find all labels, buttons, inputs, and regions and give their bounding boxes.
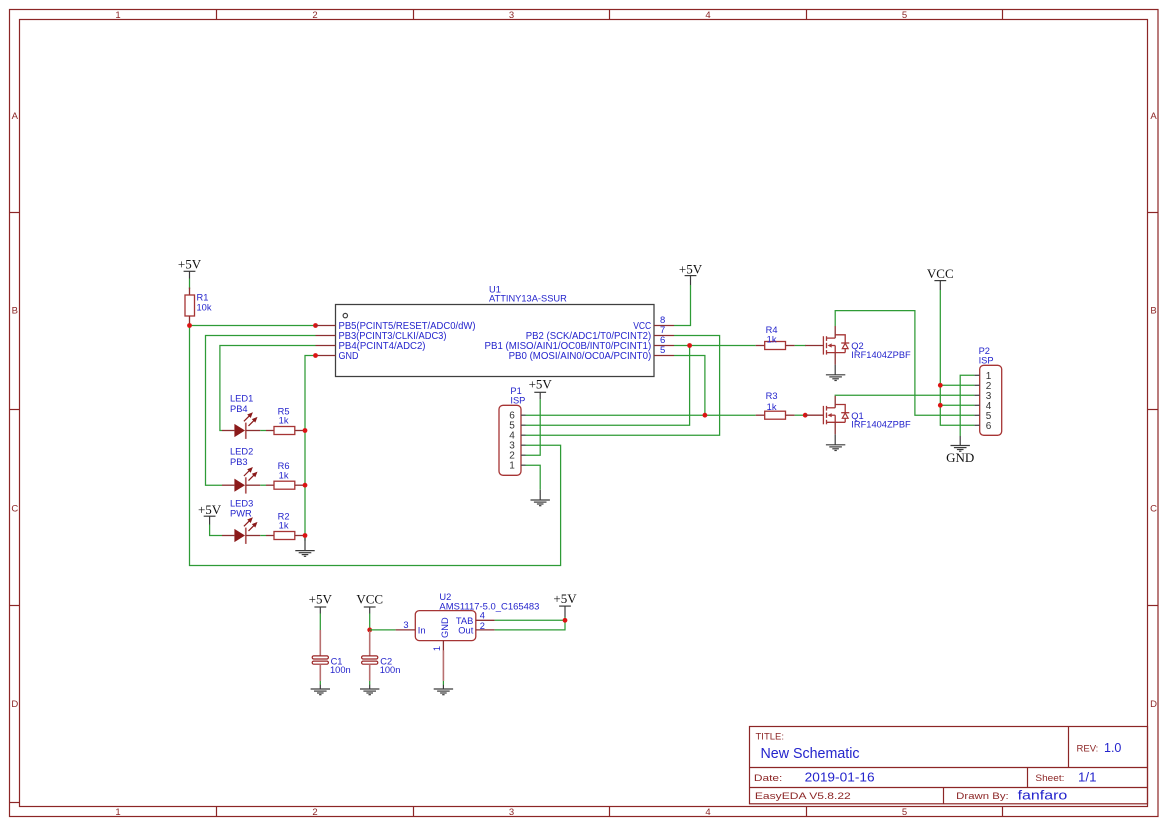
label C1 [331,656,343,666]
junction U2 out [563,618,568,623]
label PB3 [230,457,248,467]
svg-text:+5V: +5V [529,377,553,392]
connector P1 [499,405,526,475]
svg-text:EasyEDA V5.8.22: EasyEDA V5.8.22 [755,791,851,802]
svg-text:PWR: PWR [230,509,252,519]
ground under C2 [360,685,379,695]
U1 pin 1 [316,325,336,327]
svg-text:ISP: ISP [979,355,994,365]
label ISP P1 [510,396,525,406]
U2 pin name GND rotated [440,617,450,638]
label IRF1404ZPBF Q2 [851,350,911,360]
svg-text:TITLE:: TITLE: [756,731,785,742]
svg-text:1: 1 [115,10,120,21]
junction VCC C2 [367,628,372,633]
svg-text:PB4: PB4 [230,404,248,414]
label ATTINY13A-SSUR [489,294,567,304]
svg-text:1: 1 [432,646,442,651]
ground under Q2 [826,365,845,381]
wire U1 pin3 to LED1 [220,346,316,431]
wire C2 to ground [369,681,371,685]
wire U1 pin6 to R4 [674,345,756,347]
svg-text:6: 6 [986,421,992,432]
LED LED3 [222,517,260,544]
label IRF1404ZPBF Q1 [851,420,911,430]
resistor R1 [185,288,195,326]
connector P2 [974,365,1001,435]
wire VCC to P2 pin2 [940,384,974,386]
svg-text:fanfaro: fanfaro [1018,788,1068,803]
U2 pin number 3 [403,620,408,630]
ground under P2 [951,436,970,451]
svg-text:Date:: Date: [754,773,783,784]
U1 pin 3 [316,345,336,347]
svg-text:Drawn By:: Drawn By: [956,791,1009,802]
label 100n C2 [380,665,401,675]
U1 pin 5 [654,345,674,356]
svg-text:C: C [11,504,18,515]
svg-text:+5V: +5V [679,262,703,277]
wire U1 pin4 GND down [305,356,316,541]
wire Q2 drain loop to P2 pin5 [835,311,974,416]
label 1k R2 [279,521,289,531]
capacitor C1 [312,630,328,681]
svg-text:GND: GND [946,450,974,465]
wire Q1 drain to P2 pin3 [835,394,974,396]
wire +5V to LED3 [210,525,222,536]
junction R6 right [303,483,308,488]
wire RESET net down [190,326,561,566]
wire VCC node to U2 pin3 [370,629,396,631]
label Q2 [851,341,863,351]
svg-text:1.0: 1.0 [1104,741,1121,755]
wire R1 to U1 pin1 [190,325,316,327]
U2 pin name Out [458,625,473,635]
svg-text:REV:: REV: [1077,743,1099,754]
ground under C1 [311,685,330,695]
wire LED1 to R5 [260,430,266,432]
svg-text:PB3: PB3 [230,457,248,467]
svg-text:100n: 100n [330,665,351,675]
label R4 [766,325,778,335]
svg-text:1k: 1k [767,402,777,412]
svg-text:10k: 10k [197,303,212,313]
svg-text:B: B [12,306,18,317]
svg-text:In: In [418,625,426,635]
svg-text:100n: 100n [380,665,401,675]
U2 pin name In [418,625,426,635]
label PB4 [230,404,248,414]
svg-text:U2: U2 [439,592,451,602]
label Q1 [851,411,863,421]
capacitor C2 [362,631,378,681]
svg-text:1k: 1k [279,521,289,531]
label R6 [278,461,290,471]
wire U1 pin5 to P1 pin6 row [674,356,705,416]
label PWR [230,509,252,519]
svg-text:2: 2 [480,621,485,631]
svg-text:A: A [1150,111,1157,122]
svg-text:LED3: LED3 [230,498,253,508]
resistor R3 [756,411,795,419]
wire U2 ground [442,681,444,685]
svg-text:B: B [1150,306,1156,317]
junction MOSI node [703,413,708,418]
wire U2 TAB to +5V [495,619,565,621]
label R3 [766,391,778,401]
U2 pin name TAB [456,616,473,626]
LED LED2 [222,467,260,494]
svg-text:P1: P1 [510,386,521,396]
wire U1 pin2 to LED2 [206,336,316,486]
wire P1 pin6 row to R3 [526,414,756,416]
wire +5V to R1 [189,279,191,290]
label 10k [197,303,212,313]
svg-text:+5V: +5V [309,591,333,606]
svg-text:GND: GND [440,617,450,638]
svg-text:R3: R3 [766,391,778,401]
svg-text:1: 1 [115,807,120,818]
ground under U2 [434,685,453,695]
label U2 [439,592,451,602]
junction R2 right [303,533,308,538]
svg-text:R1: R1 [197,292,209,302]
svg-text:+5V: +5V [553,591,577,606]
svg-text:ATTINY13A-SSUR: ATTINY13A-SSUR [489,294,567,304]
wire R3 to Q1 gate [795,414,806,416]
svg-text:1: 1 [509,461,515,472]
U2 pin number 4 [480,611,485,621]
svg-text:3: 3 [509,807,514,818]
wire U1 pin6 to P1 pin5 [526,346,690,426]
transistor Q2 [805,326,849,365]
svg-text:PB0 (MOSI/AIN0/OC0A/PCINT0): PB0 (MOSI/AIN0/OC0A/PCINT0) [509,351,652,362]
U1 pin 2 [316,335,336,337]
power flag +5V (U2 out) [553,591,577,618]
svg-text:Out: Out [458,625,473,635]
svg-text:ISP: ISP [510,396,525,406]
title block [750,727,1148,804]
svg-text:5: 5 [902,807,907,818]
wire +5V to P1 pin2 [526,399,541,455]
svg-text:1k: 1k [279,416,289,426]
resistor R4 [756,342,795,350]
svg-text:4: 4 [705,807,710,818]
label LED3 [230,498,253,508]
wire +5V to U1 pin8 [674,285,691,326]
regulator U2 [396,611,495,681]
ground under P1 [531,490,550,506]
U1 pin 4 [316,355,336,357]
svg-text:LED2: LED2 [230,446,253,456]
svg-text:4: 4 [705,10,710,21]
label LED1 [230,394,253,404]
junction at R1 bottom [187,323,192,328]
svg-text:A: A [12,111,19,122]
label ISP P2 [979,355,994,365]
svg-text:C: C [1150,504,1157,515]
power flag +5V (LED3) [198,502,222,524]
label P1 [510,386,521,396]
svg-text:2: 2 [312,10,317,21]
wire +5V to C1 [319,614,321,632]
svg-text:TAB: TAB [456,616,473,626]
wire LED2 to R6 [260,484,266,486]
label U1 [489,284,501,294]
LED LED1 [222,412,260,439]
ground under R2 [295,538,314,556]
wire LED3 to R2 [260,535,266,537]
label R1 [197,292,209,302]
junction at U1 pin1 [313,323,318,328]
svg-text:AMS1117-5.0_C165483: AMS1117-5.0_C165483 [439,602,539,612]
label C2 [380,656,392,666]
U1 pin 7 [654,325,674,336]
svg-text:1/1: 1/1 [1078,771,1097,785]
svg-text:IRF1404ZPBF: IRF1404ZPBF [851,350,911,360]
ground under Q1 [826,434,845,450]
label P2 [979,346,990,356]
svg-text:VCC: VCC [356,591,383,606]
resistor R6 [266,481,304,489]
svg-text:LED1: LED1 [230,394,253,404]
svg-text:Sheet:: Sheet: [1035,773,1064,784]
junction at pin6 branch [687,343,692,348]
wire +5V to Out [495,617,565,630]
junction Q1 gate [803,413,808,418]
label 1k R5 [279,416,289,426]
U1 pin 6 [654,335,674,346]
svg-text:3: 3 [403,620,408,630]
junction at U1 pin4 [313,353,318,358]
svg-text:D: D [11,699,18,710]
svg-text:+5V: +5V [198,502,222,517]
resistor R5 [266,427,304,435]
U1 pin 8 [654,315,674,326]
label AMS1117-5.0_C165483 [439,602,539,612]
svg-text:2019-01-16: 2019-01-16 [805,770,875,785]
label R2 [278,511,290,521]
svg-text:D: D [1150,699,1157,710]
svg-text:IRF1404ZPBF: IRF1404ZPBF [851,420,911,430]
label LED2 [230,446,253,456]
svg-text:4: 4 [480,611,485,621]
svg-text:2: 2 [312,807,317,818]
wire C1 to ground [319,681,321,685]
U2 pin number 2 [480,621,485,631]
U1 pin names right [485,321,652,362]
wire U1 pin7 to P1 pin4 [526,336,720,436]
svg-text:VCC: VCC [927,266,954,281]
power flag +5V (above R1) [178,257,202,279]
svg-text:GND: GND [339,351,359,362]
U1 pin names left [339,321,476,362]
svg-text:1k: 1k [279,470,289,480]
label 1k R6 [279,470,289,480]
wire R4 to Q2 gate [795,345,806,347]
junction VCC pin4 [938,403,943,408]
power flag VCC (C2) [356,591,383,613]
net label GND (P2) [946,450,974,465]
label 1k R4 [767,334,777,344]
wire VCC vertical to P2 [940,290,974,425]
label 100n C1 [330,665,351,675]
junction VCC pin2 [938,383,943,388]
U2 pin number 1 [432,646,442,651]
resistor R2 [266,532,304,540]
wire P1 pin1 to ground [526,465,541,490]
junction R5 right [303,428,308,433]
label R5 [278,406,290,416]
power flag +5V (U1 pin8) [679,262,703,285]
svg-text:5: 5 [660,345,665,356]
svg-text:+5V: +5V [178,257,202,272]
power flag +5V (C1) [309,591,333,613]
wire VCC to U2 node [369,614,371,630]
power flag VCC (P2) [927,266,954,290]
wire P2 pin1 to ground [960,375,974,436]
svg-text:1k: 1k [767,334,777,344]
svg-text:5: 5 [902,10,907,21]
wire VCC to P2 pin4 [940,404,974,406]
svg-text:3: 3 [509,10,514,21]
svg-text:New Schematic: New Schematic [761,745,860,762]
IC U1 body [336,305,655,377]
label 1k R3 [767,402,777,412]
transistor Q1 [805,396,849,435]
power flag +5V (P1) [529,377,553,400]
